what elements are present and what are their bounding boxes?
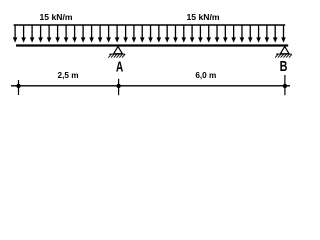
load arrow 6	[55, 25, 60, 43]
load arrow 32	[273, 25, 278, 43]
load arrow 8	[72, 25, 77, 43]
svg-text:15 kN/m: 15 kN/m	[40, 12, 73, 22]
support B triangle (pin)	[280, 46, 289, 53]
load arrow 9	[81, 25, 86, 43]
load arrow 24	[206, 25, 211, 43]
dimension tick at A	[118, 79, 120, 95]
load arrow 11	[98, 25, 103, 43]
load arrow 3	[30, 25, 35, 43]
dimension line	[11, 85, 290, 87]
dimension tick at B	[284, 75, 286, 95]
load arrow 2	[21, 25, 26, 43]
dimension dot at left beam end	[16, 84, 20, 88]
load arrow 23	[198, 25, 203, 43]
load arrow 10	[89, 25, 94, 43]
load arrow 1	[13, 25, 18, 43]
load arrow 16	[140, 25, 145, 43]
support A triangle (pin)	[114, 46, 123, 53]
svg-text:6,0 m: 6,0 m	[195, 71, 216, 80]
dimension dot at A	[116, 84, 120, 88]
load arrow 17	[148, 25, 153, 43]
support A hatching	[108, 54, 125, 57]
load arrow 31	[265, 25, 270, 43]
load arrow 18	[157, 25, 162, 43]
load arrow 7	[64, 25, 69, 43]
load arrow 20	[173, 25, 178, 43]
svg-text:2,5 m: 2,5 m	[58, 71, 79, 80]
svg-text:B: B	[280, 58, 288, 75]
load arrow 13	[115, 25, 120, 43]
load arrow 15	[132, 25, 137, 43]
load arrow 30	[256, 25, 261, 43]
load arrow 29	[248, 25, 253, 43]
load arrow 19	[165, 25, 170, 43]
beam	[16, 44, 288, 46]
svg-text:A: A	[116, 59, 124, 76]
load arrow 14	[123, 25, 128, 43]
load arrow 25	[215, 25, 220, 43]
load arrow 12	[106, 25, 111, 43]
dimension tick at left beam end	[18, 80, 20, 95]
support A ground line	[109, 53, 125, 55]
support B ground line	[276, 53, 291, 55]
load arrow 5	[47, 25, 52, 43]
support B hatching	[275, 54, 292, 57]
load arrow 27	[231, 25, 236, 43]
load arrow 26	[223, 25, 228, 43]
dimension dot at B	[283, 84, 287, 88]
load arrow 33	[281, 25, 286, 43]
load arrow 21	[181, 25, 186, 43]
svg-text:15 kN/m: 15 kN/m	[187, 12, 220, 22]
distributed load top line	[14, 24, 286, 26]
load arrow 4	[38, 25, 43, 43]
load arrow 22	[190, 25, 195, 43]
load arrow 28	[240, 25, 245, 43]
